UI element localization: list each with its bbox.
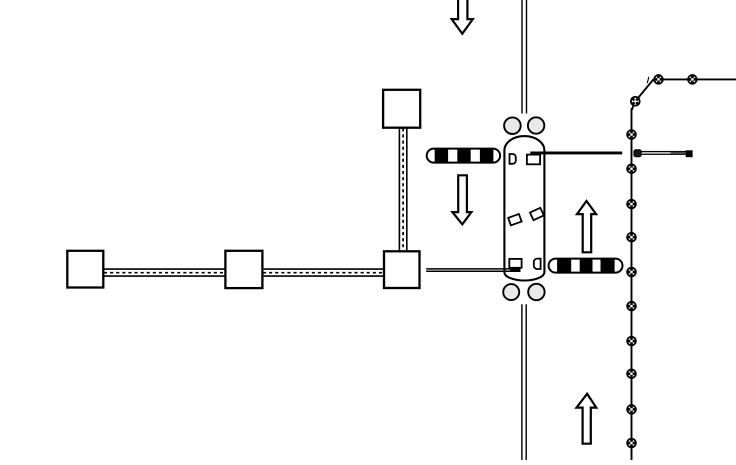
lamp column	[626, 232, 636, 242]
mast arm dark segment	[671, 152, 687, 154]
belisha beacon bar right (striped)	[549, 259, 623, 273]
cable termination under rect	[510, 268, 521, 272]
lamp column	[626, 369, 636, 379]
road edge double line (top)	[521, 0, 523, 114]
road edge double line (bottom)	[521, 304, 523, 460]
duct with cable: square4 down to square3	[399, 128, 406, 252]
signal head circle bottom-left	[503, 284, 519, 300]
duct run square 2	[225, 251, 262, 288]
signal pole base right	[634, 150, 641, 157]
lamp column	[687, 74, 697, 84]
lamp column (bottom)	[626, 438, 636, 448]
signal head box	[686, 150, 693, 157]
up arrow (mid right)	[577, 201, 596, 252]
lamp column	[626, 301, 636, 311]
lighting cable diagonal	[632, 79, 654, 110]
signal head circle top-right	[528, 117, 544, 133]
lighting cable top horizontal	[654, 78, 736, 80]
duct run square 3	[384, 251, 420, 288]
bend tick	[647, 77, 649, 83]
duct run square 1	[67, 251, 103, 288]
lighting cable vertical	[631, 108, 633, 460]
signal head circle bottom-right	[528, 284, 544, 300]
down arrow (top, clipped)	[452, 0, 473, 34]
down arrow (mid left of island)	[452, 175, 471, 224]
duct with cable: square1 to square2	[103, 269, 225, 276]
belisha beacon bar left (striped)	[427, 149, 500, 163]
signal head circle top-left	[504, 117, 521, 134]
lamp column	[653, 74, 663, 84]
duct with cable: square2 to square3	[262, 269, 384, 276]
lamp column	[626, 164, 636, 174]
controller box top-right of island	[527, 155, 540, 165]
crossing island	[504, 136, 544, 280]
push-button pole bottom-right (mirrored D)	[534, 259, 541, 269]
lamp column	[626, 199, 636, 209]
push-button pole top-left (D shape)	[509, 154, 515, 164]
tactile paver right (rotated)	[530, 208, 544, 220]
up arrow (bottom right)	[577, 394, 597, 444]
lamp column	[626, 267, 636, 277]
duct run square 4 (top)	[383, 90, 420, 128]
feeder pillar at bend	[631, 97, 640, 106]
lamp column	[626, 336, 636, 346]
lamp column	[626, 129, 636, 139]
lamp column	[626, 404, 636, 414]
feeder cable to island (double line)	[426, 268, 520, 270]
push-button box bottom-left	[509, 259, 521, 268]
tactile paver left (rotated)	[508, 214, 521, 225]
mast arm (grey)	[641, 152, 686, 155]
mast arm line from island to right	[530, 152, 622, 155]
